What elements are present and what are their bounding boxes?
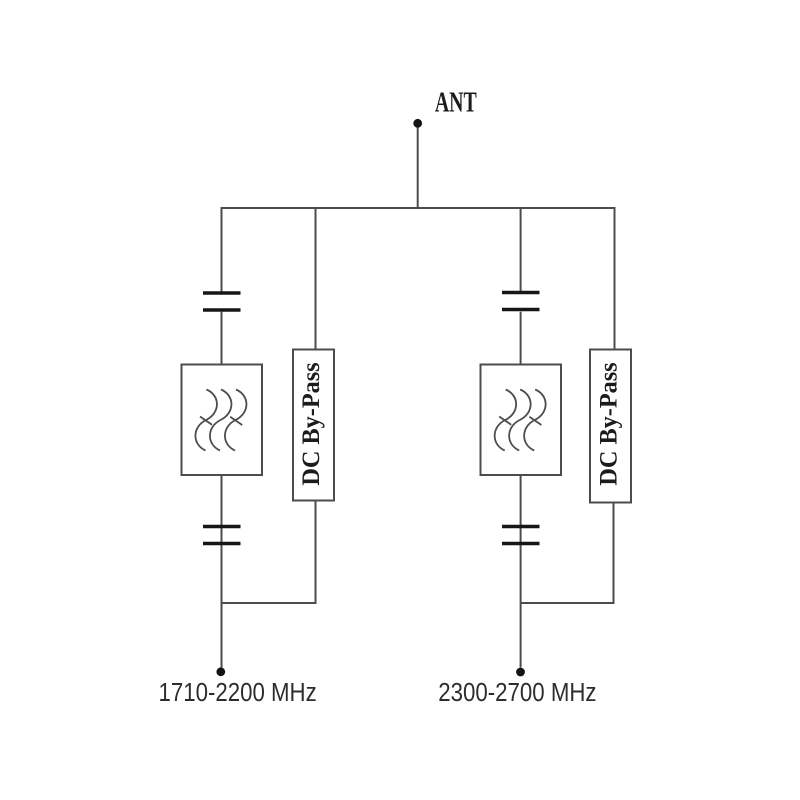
svg-text:ANT: ANT: [435, 87, 477, 119]
svg-text:DC By-Pass: DC By-Pass: [595, 362, 622, 485]
svg-text:2300-2700 MHz: 2300-2700 MHz: [438, 678, 596, 707]
svg-text:DC By-Pass: DC By-Pass: [298, 362, 325, 485]
svg-text:1710-2200 MHz: 1710-2200 MHz: [158, 678, 316, 707]
